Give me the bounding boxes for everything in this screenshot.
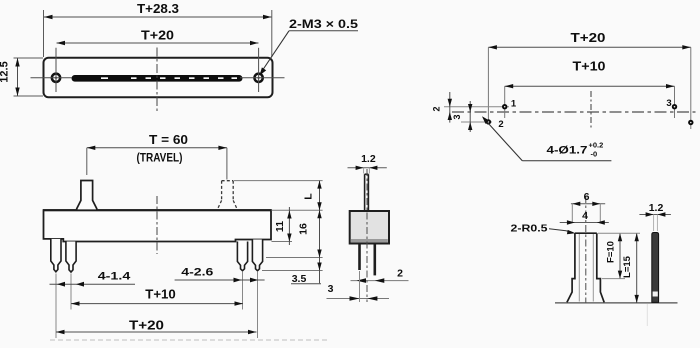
svg-text:F=10: F=10	[606, 241, 617, 263]
mounting hole left	[51, 72, 62, 83]
front view body outline	[44, 210, 272, 241]
lever detail front view outline	[567, 233, 604, 302]
svg-text:11: 11	[274, 221, 286, 232]
svg-text:4-Ø1.7: 4-Ø1.7	[547, 145, 588, 157]
dimension 2 (side view pins)	[351, 268, 409, 283]
lever detail centerline	[585, 196, 587, 303]
side view lever	[365, 174, 369, 211]
label 2-R0.5 with leader	[511, 223, 576, 235]
extension line pin-shoulder level	[266, 257, 323, 259]
svg-text:3: 3	[666, 98, 671, 109]
svg-text:3: 3	[452, 114, 462, 119]
svg-text:T+10: T+10	[145, 288, 176, 302]
front view body top edge	[43, 209, 272, 211]
dimension 2 (hole offset)	[432, 92, 453, 123]
dimension L / 16 / 3.5 shared line	[298, 181, 322, 284]
top view body outline	[44, 58, 273, 98]
slot	[72, 75, 243, 82]
svg-text:4-1.4: 4-1.4	[98, 271, 132, 283]
svg-text:-0: -0	[591, 150, 598, 159]
scan artifact faint vertical	[646, 304, 648, 326]
svg-text:16: 16	[298, 223, 310, 235]
bottom extension line pin4 center	[257, 272, 259, 338]
dimension T+20 (top view)	[57, 29, 259, 46]
slider lever (dashed, right travel position)	[217, 181, 237, 210]
svg-text:12.5: 12.5	[0, 61, 11, 82]
pin 1	[51, 239, 61, 272]
lever detail side view blade	[652, 233, 659, 303]
dimension F=10	[602, 233, 625, 278]
extension line lever-top level	[234, 180, 323, 182]
dimension 1.2 (blade)	[639, 202, 671, 231]
svg-text:T = 60: T = 60	[149, 133, 188, 147]
hole 3	[672, 104, 677, 109]
svg-text:1: 1	[511, 99, 517, 110]
side view body	[350, 211, 389, 244]
mounting surface baseline	[555, 302, 678, 304]
dimension 3 (side view)	[327, 271, 390, 302]
bottom extension line pin1 center	[55, 274, 57, 339]
dimension T+20 (front)	[56, 319, 257, 335]
footprint vertical centerline	[590, 91, 592, 130]
svg-text:+0.2: +0.2	[589, 141, 604, 150]
svg-text:2-M3 × 0.5: 2-M3 × 0.5	[289, 17, 358, 31]
svg-text:2: 2	[397, 268, 403, 280]
pin 4	[252, 240, 262, 271]
dimension 4	[560, 210, 609, 225]
svg-text:2: 2	[432, 106, 442, 111]
svg-text:1.2: 1.2	[649, 202, 664, 214]
side view body bottom shading	[351, 239, 388, 242]
svg-text:(TRAVEL): (TRAVEL)	[137, 153, 183, 165]
svg-text:2: 2	[498, 119, 503, 130]
dimension 6	[571, 191, 605, 223]
extension line body-bottom level	[272, 241, 293, 243]
extension line pin-tip level	[262, 270, 323, 272]
dimension 3 (hole offset)	[452, 101, 472, 132]
hole centerline left	[31, 48, 73, 92]
lever detail inner lines	[579, 234, 593, 302]
dimension T+20 (footprint)	[488, 31, 690, 129]
extension line hole2 level	[461, 121, 492, 123]
svg-text:1.2: 1.2	[361, 153, 376, 165]
dimension 11	[274, 207, 292, 245]
slider lever (solid, left position)	[77, 181, 97, 211]
svg-text:3: 3	[328, 283, 334, 295]
svg-text:T+20: T+20	[571, 31, 606, 45]
svg-text:3.5: 3.5	[292, 273, 307, 285]
svg-text:T+20: T+20	[141, 29, 174, 43]
footprint horizontal axis centerline	[452, 111, 696, 113]
bottom extension line pin3 center	[242, 272, 244, 310]
hole 2	[486, 119, 491, 124]
dimension 4-2.6	[175, 267, 265, 283]
hole 4	[688, 120, 693, 125]
dimension T+28.3	[44, 2, 272, 57]
hole centerline right	[240, 48, 285, 92]
extension line body-top level	[272, 209, 323, 211]
side view centerline	[366, 169, 368, 302]
dimension T+10 (front)	[71, 288, 243, 306]
label 2-M3 x 0.5 with leader	[260, 17, 359, 76]
dimension T+10 (footprint)	[505, 60, 675, 119]
dimension 4-1.4	[50, 271, 136, 287]
dimension 1.2 (side view lever)	[348, 153, 387, 174]
svg-text:4-2.6: 4-2.6	[181, 267, 213, 279]
svg-text:L: L	[303, 193, 315, 200]
top view vertical centerline	[156, 48, 158, 112]
mounting hole right	[253, 72, 264, 83]
label 4-dia1.7 with tolerance and leader	[482, 116, 611, 161]
dimension 3.5 label	[291, 273, 321, 285]
dimension T=60 (TRAVEL)	[87, 133, 227, 180]
side view pin rear	[373, 244, 376, 276]
extension line hole1 level	[444, 106, 509, 108]
svg-text:2-R0.5: 2-R0.5	[511, 223, 548, 235]
dimension 12.5	[0, 58, 43, 96]
bottom extension line pin2 center	[70, 274, 72, 310]
pin 2	[66, 242, 76, 273]
slot centerline white dashes	[101, 77, 237, 79]
dimension L=15	[598, 233, 640, 303]
svg-text:T+20: T+20	[129, 319, 164, 333]
svg-text:L=15: L=15	[622, 255, 633, 278]
svg-text:6: 6	[584, 191, 590, 203]
svg-text:T+10: T+10	[573, 60, 606, 74]
hole 1	[502, 104, 507, 109]
pin 3	[237, 242, 247, 271]
svg-text:T+28.3: T+28.3	[137, 2, 179, 16]
svg-text:4: 4	[582, 210, 588, 222]
side view pin front	[358, 244, 361, 271]
scan artifact bottom line	[50, 339, 330, 341]
front view vertical centerline	[156, 196, 158, 254]
